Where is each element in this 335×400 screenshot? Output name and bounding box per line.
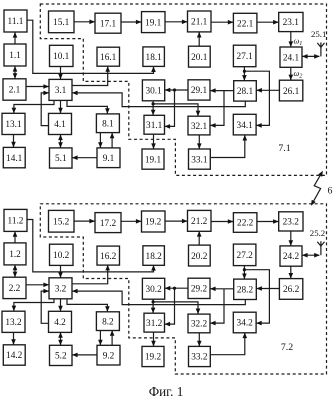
wire 21.2 to 22.2: [211, 219, 233, 224]
wire 9.1 to 8.1: [110, 133, 115, 148]
svg-text:23.1: 23.1: [283, 18, 300, 28]
wire 26.2 to 28.2: [256, 286, 279, 291]
svg-text:29.2: 29.2: [191, 285, 208, 295]
wire 4.1 to 3.1: [41, 91, 49, 126]
svg-text:18.2: 18.2: [146, 252, 163, 262]
svg-text:24.1: 24.1: [283, 53, 300, 63]
block 1.1: [4, 44, 26, 66]
svg-text:21.1: 21.1: [191, 18, 208, 28]
block 29.1: [188, 80, 210, 100]
block 33.2: [189, 346, 211, 366]
block 30.1: [142, 80, 164, 101]
block 18.2: [143, 246, 165, 265]
block 23.1: [279, 12, 303, 31]
wire 11.1 to 18.1: [27, 20, 156, 73]
svg-text:31.2: 31.2: [146, 319, 163, 329]
svg-text:ω1: ω1: [294, 37, 303, 48]
wire 28.2 to 29.2: [210, 287, 234, 292]
svg-text:30.2: 30.2: [145, 285, 162, 295]
wire 10.1 to 3.1: [58, 67, 63, 80]
block 32.1: [188, 116, 210, 135]
svg-text:5.2: 5.2: [55, 352, 67, 362]
block 8.2: [96, 312, 119, 331]
wire 13.1 to 14.1: [11, 135, 16, 148]
svg-text:20.2: 20.2: [191, 252, 208, 262]
svg-text:18.1: 18.1: [146, 53, 163, 63]
svg-text:17.1: 17.1: [100, 19, 117, 29]
block 31.2: [144, 313, 165, 332]
svg-text:34.1: 34.1: [237, 121, 254, 131]
svg-text:8.2: 8.2: [102, 317, 114, 327]
block 13.1: [2, 113, 25, 134]
svg-text:2.2: 2.2: [9, 284, 21, 294]
block 34.1: [233, 114, 256, 135]
block 23.2: [279, 212, 303, 231]
svg-text:19.2: 19.2: [145, 218, 162, 228]
svg-text:25.2: 25.2: [310, 228, 325, 238]
block 10.2: [50, 244, 74, 265]
wire 33.1 to 34.1: [210, 135, 247, 158]
wire 27.2 branch to 34.2: [244, 270, 269, 326]
svg-text:24.2: 24.2: [283, 252, 300, 262]
block 1.2: [4, 243, 26, 265]
antenna 25.2: [317, 241, 324, 255]
svg-text:22.2: 22.2: [237, 219, 254, 229]
wire 29.1 to 30.1: [165, 88, 188, 93]
block 5.1: [50, 148, 73, 168]
svg-text:34.2: 34.2: [237, 319, 254, 329]
svg-text:16.2: 16.2: [100, 252, 117, 262]
wire 32.1 to 33.1: [197, 135, 202, 149]
wire 3.2 to 16.2: [72, 265, 110, 284]
wire 30.1 to 31.1: [151, 101, 156, 116]
block 22.1: [233, 13, 257, 33]
svg-text:27.1: 27.1: [237, 52, 254, 62]
svg-text:4.2: 4.2: [54, 318, 66, 328]
wire 1.2 to 11.2: [13, 231, 18, 243]
block 22.2: [233, 213, 257, 233]
wire 3.1 to 16.1: [72, 66, 110, 85]
svg-text:19.1: 19.1: [145, 18, 162, 28]
svg-text:9.1: 9.1: [103, 154, 115, 164]
block 10.1: [50, 45, 74, 66]
block 16.1: [97, 47, 120, 66]
svg-text:28.2: 28.2: [237, 286, 254, 296]
svg-text:21.2: 21.2: [191, 217, 208, 227]
wire 27.1 to 28.1: [242, 67, 247, 81]
dashed boundary of unit 7.1: [40, 4, 326, 175]
svg-text:3.2: 3.2: [55, 285, 67, 295]
wire 27.1 branch to 34.1: [244, 71, 269, 128]
wire 3.2 to 8.2: [67, 299, 110, 312]
svg-text:32.1: 32.1: [191, 122, 208, 132]
block 21.2: [188, 210, 212, 231]
block 20.1: [189, 46, 211, 67]
antenna 25.1: [317, 42, 324, 56]
block 21.1: [188, 11, 212, 32]
radio channel 6 zigzag arrow: [311, 171, 323, 206]
wire 13.2 to 14.2: [11, 332, 16, 345]
wire 19.2 to 21.2: [165, 219, 188, 224]
svg-text:Фиг. 1: Фиг. 1: [149, 384, 184, 399]
block 2.1: [3, 79, 26, 100]
wire 3.1 to 13.1: [12, 100, 54, 113]
svg-text:30.1: 30.1: [145, 87, 162, 97]
svg-text:19.2: 19.2: [145, 353, 162, 363]
block 9.1: [97, 148, 120, 168]
wire 1.2-2.2 bidirectional: [13, 265, 18, 278]
wire 4.1-5.1 bidirectional: [58, 135, 63, 148]
block 17.2: [95, 213, 121, 233]
svg-text:5.1: 5.1: [55, 154, 67, 164]
svg-text:7.2: 7.2: [281, 342, 293, 353]
wire 32.2 to 33.2: [197, 333, 202, 347]
wire 15.1 to 17.1: [74, 20, 95, 25]
block 29.2: [188, 278, 210, 298]
wire 23.2 to 24.2: [289, 231, 294, 246]
svg-text:26.1: 26.1: [283, 87, 300, 97]
wire 4.2 to 3.2: [41, 289, 49, 324]
svg-text:17.2: 17.2: [100, 219, 117, 229]
wire 17.1 to 19.1: [121, 20, 142, 25]
wire 30.2 to 31.2: [151, 299, 156, 313]
wire 3.1 to 4.1: [58, 100, 63, 113]
svg-text:28.1: 28.1: [237, 87, 254, 97]
block 26.2: [279, 279, 302, 300]
wire 30.2 junction to 32.2: [153, 302, 200, 314]
block 19.1 (lower): [142, 149, 164, 169]
svg-text:25.1: 25.1: [311, 29, 326, 39]
block 17.1: [95, 13, 121, 33]
wire 2.1 to 3.1: [26, 84, 49, 89]
svg-text:9.2: 9.2: [103, 351, 115, 361]
wire 1.1 to 11.1: [13, 32, 18, 44]
wire 19.1 to 21.1: [165, 20, 188, 25]
wire 10.2 to 3.2: [58, 265, 63, 278]
wire 17.2 to 19.2: [121, 219, 142, 224]
wire 28.1 to 3.1 bus: [72, 91, 245, 107]
wire 28.2-29.2 junction to 32.2: [210, 289, 224, 326]
block 30.2: [142, 278, 164, 299]
block 34.2: [233, 312, 256, 333]
dashed boundary of unit 7.2: [40, 204, 326, 374]
wire 27.2 to 28.2: [242, 265, 247, 279]
wire 29.1-30.1 junction to 31.1: [165, 90, 175, 129]
wire 28.1 to 29.1: [210, 88, 234, 93]
block 32.2: [188, 314, 210, 333]
block 19.1: [142, 12, 166, 33]
wire 31.2 to 19.2 lower: [151, 332, 156, 347]
svg-text:22.1: 22.1: [237, 19, 254, 29]
wire 29.2 to 30.2: [165, 286, 188, 291]
block 8.1: [96, 114, 119, 133]
svg-text:3.1: 3.1: [55, 86, 67, 96]
wire 1.1-2.1 bidirectional: [13, 66, 18, 79]
block 13.2: [2, 311, 25, 332]
block 14.2: [3, 345, 25, 365]
wire 11.2 to 18.2: [27, 220, 156, 272]
svg-text:10.1: 10.1: [53, 52, 70, 62]
block 19.2 (lower): [142, 346, 164, 366]
wire 24.1 to antenna 25.1 (bidirectional): [302, 54, 320, 59]
svg-text:33.1: 33.1: [191, 155, 208, 165]
svg-text:19.1: 19.1: [145, 155, 162, 165]
wire 29.2-30.2 junction to 31.2: [165, 288, 175, 326]
block 28.1: [234, 81, 257, 101]
svg-text:27.2: 27.2: [237, 251, 254, 261]
svg-text:ω2: ω2: [294, 69, 303, 80]
block 16.2: [97, 246, 120, 265]
block 15.1: [49, 11, 75, 33]
wire 3.2 to 4.2: [58, 299, 63, 312]
wire 2.2 to 3.2: [26, 283, 49, 288]
block 2.2: [3, 277, 26, 298]
block 24.1: [280, 47, 302, 67]
wire 28.1-29.1 junction to 32.1: [210, 91, 224, 128]
svg-text:11.1: 11.1: [8, 17, 24, 27]
wire 28.2 to 3.2 bus: [72, 289, 245, 305]
block 26.1: [279, 80, 302, 101]
block 11.1: [4, 10, 27, 32]
wire 23.1 to 24.1: [289, 32, 294, 47]
svg-text:2.1: 2.1: [9, 86, 21, 96]
block 33.1: [189, 149, 211, 169]
block 18.1: [143, 47, 165, 67]
wire 22.2 to 23.2: [257, 219, 279, 224]
block 20.2: [189, 245, 211, 266]
block 11.2: [4, 209, 27, 231]
wire 3.2 to 13.2: [12, 299, 54, 312]
wire 3.1 to 8.1: [67, 100, 110, 114]
svg-text:20.1: 20.1: [191, 53, 208, 63]
svg-text:33.2: 33.2: [191, 353, 208, 363]
wire 9.1 to 5.1: [72, 155, 97, 160]
wire 30.1 junction to 32.1: [153, 104, 200, 116]
wire 9.2 to 8.2: [110, 330, 115, 345]
svg-text:7.1: 7.1: [278, 143, 290, 154]
svg-text:15.1: 15.1: [53, 18, 70, 28]
block 14.1: [3, 147, 25, 167]
svg-text:15.2: 15.2: [53, 217, 70, 227]
wire 20.1 to 21.1: [197, 32, 202, 46]
svg-text:26.2: 26.2: [283, 285, 300, 295]
svg-text:6: 6: [328, 186, 333, 197]
svg-text:8.1: 8.1: [102, 120, 114, 130]
block 4.1: [49, 113, 72, 134]
svg-text:29.1: 29.1: [191, 86, 208, 96]
wire 20.2 to 21.2: [197, 231, 202, 245]
svg-text:32.2: 32.2: [191, 320, 208, 330]
svg-text:1.1: 1.1: [9, 51, 21, 61]
block 19.2: [142, 211, 166, 232]
block 3.2: [49, 278, 72, 299]
svg-text:14.1: 14.1: [6, 154, 23, 164]
block 27.2: [233, 244, 256, 266]
wire 31.1 to 19.1 lower: [151, 134, 156, 149]
wire 24.2 to 26.2: [289, 266, 294, 279]
wire 8.1 to 9.1: [98, 133, 103, 148]
block 9.2: [97, 345, 120, 365]
wire 4.2-5.2 bidirectional: [58, 332, 63, 345]
wire 26.1 to 28.1: [256, 88, 279, 93]
block 24.2: [280, 246, 302, 266]
wire 24.1 to 26.1: [289, 67, 294, 80]
svg-text:16.1: 16.1: [100, 53, 117, 63]
wire 22.1 to 23.1: [257, 20, 279, 25]
block 5.2: [50, 345, 73, 365]
block 3.1: [49, 79, 72, 100]
wire 9.2 to 5.2: [72, 353, 97, 358]
wire 24.2 to antenna 25.2 (bidirectional): [302, 253, 320, 258]
wire 21.1 to 22.1: [211, 20, 233, 25]
svg-text:13.2: 13.2: [5, 318, 22, 328]
wire 15.2 to 17.2: [74, 219, 95, 224]
block 15.2: [49, 210, 75, 232]
wire 8.2 to 9.2: [98, 330, 103, 345]
block 27.1: [233, 45, 256, 66]
svg-text:14.2: 14.2: [6, 351, 23, 361]
svg-text:23.2: 23.2: [283, 218, 300, 228]
svg-text:1.2: 1.2: [9, 250, 21, 260]
block 28.2: [234, 279, 257, 299]
svg-text:13.1: 13.1: [5, 120, 22, 130]
block 4.2: [49, 311, 72, 332]
svg-text:4.1: 4.1: [54, 120, 66, 130]
wire 33.2 to 34.2: [210, 333, 247, 355]
svg-text:10.2: 10.2: [53, 251, 70, 261]
svg-text:11.2: 11.2: [8, 217, 24, 227]
svg-text:31.1: 31.1: [146, 121, 163, 131]
block 31.1: [144, 115, 165, 134]
